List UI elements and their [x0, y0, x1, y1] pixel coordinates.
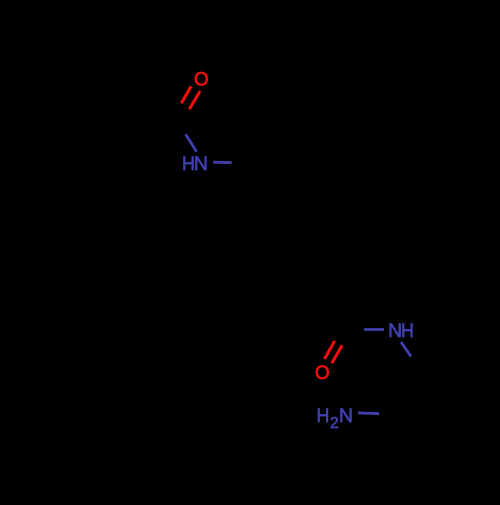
bond N1-CH2 (right, blue half) [213, 161, 231, 164]
svg-text:H: H [317, 405, 330, 427]
bond N3-CH2 (right, blue half) [358, 411, 379, 415]
bond C1=O1 double line b [189, 91, 200, 109]
svg-text:2: 2 [330, 415, 339, 432]
svg-text:O: O [315, 362, 330, 384]
svg-text:O: O [194, 69, 209, 91]
svg-text:N: N [339, 405, 353, 427]
bond N2-CH (down-right, blue half) [401, 342, 411, 357]
atom N3 label H2N (primary amine) [317, 405, 354, 432]
svg-text:H: H [401, 320, 414, 342]
svg-text:N: N [194, 153, 208, 175]
atom N1 label HN (amide) [182, 153, 208, 175]
bond N1-C1 (up, blue half) [186, 134, 197, 152]
bond C1=O1 double line a [181, 86, 191, 103]
atom N2 label NH (amide 2) [388, 320, 414, 342]
bond C2-N2 (left, blue half) [364, 328, 384, 331]
bond C2=O2 double line a [325, 341, 335, 359]
atom O2 (bottom carbonyl oxygen) [315, 362, 330, 384]
bond C2=O2 double line b [332, 345, 342, 363]
atom O1 (top carbonyl oxygen) [194, 69, 209, 91]
